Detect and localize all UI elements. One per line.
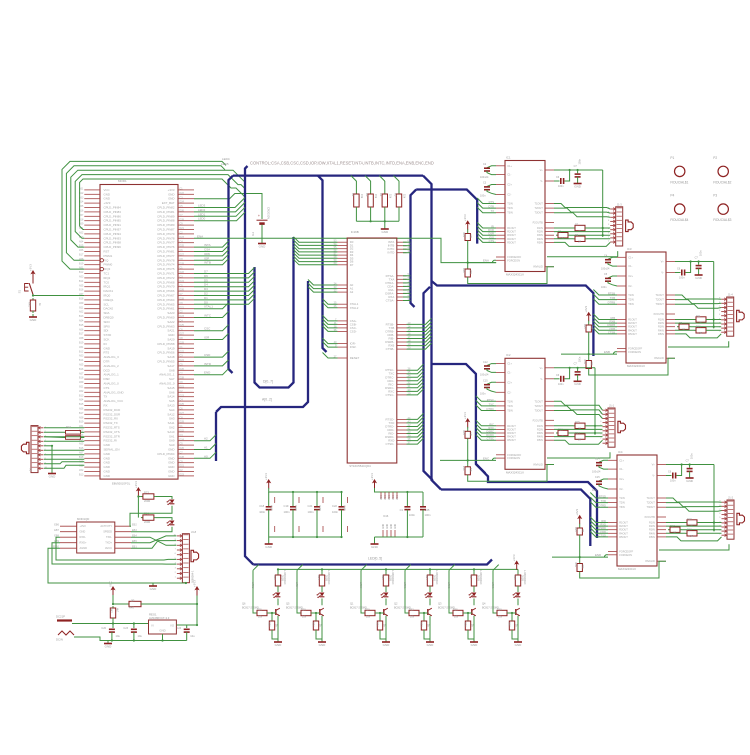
- svg-text:R3IN: R3IN: [537, 233, 543, 237]
- svg-text:CSD: CSD: [204, 353, 211, 357]
- wire IC1 V+ to connector: [602, 170, 604, 237]
- svg-text:Q3: Q3: [438, 602, 442, 606]
- svg-text:T3IN: T3IN: [619, 505, 625, 509]
- svg-text:SA8: SA8: [169, 368, 175, 372]
- svg-text:XTAL2: XTAL2: [350, 306, 359, 310]
- capacitor IC2 V+ filter: [577, 368, 579, 371]
- svg-text:A52: A52: [79, 311, 84, 314]
- svg-text:B17: B17: [79, 412, 84, 415]
- module MOD1QD pins: [60, 525, 77, 527]
- svg-text:GND: GND: [168, 470, 174, 474]
- svg-text:CPLD_PIN97: CPLD_PIN97: [104, 228, 122, 232]
- svg-text:100n: 100n: [700, 250, 703, 256]
- svg-text:A54: A54: [79, 399, 84, 402]
- svg-text:LED1: LED1: [403, 582, 407, 589]
- svg-text:R4IN: R4IN: [537, 237, 543, 241]
- svg-text:R26: R26: [268, 622, 271, 627]
- svg-text:IFI: IFI: [104, 342, 108, 346]
- svg-text:FIDUCIAL$4: FIDUCIAL$4: [670, 218, 688, 222]
- wires bus fan to IC4 R outputs: [590, 517, 608, 523]
- svg-text:CPLD_PIN86: CPLD_PIN86: [104, 214, 122, 218]
- transceiver IC4 MAX3243 body: [617, 455, 657, 566]
- svg-text:DSR: DSR: [104, 377, 110, 381]
- svg-text:C2-: C2-: [619, 487, 623, 491]
- svg-text:100n: 100n: [259, 510, 265, 514]
- uart left pin stubs: [338, 242, 348, 358]
- wire J2 ground: [44, 445, 52, 447]
- svg-text:D27: D27: [180, 254, 185, 257]
- wire LED to collector: [321, 599, 323, 606]
- svg-text:L-934SRD-D: L-934SRD-D: [391, 570, 394, 585]
- svg-text:R4IN: R4IN: [649, 531, 655, 535]
- resistor IC4 pullup: [579, 524, 581, 526]
- svg-text:INTD: INTD: [388, 251, 395, 255]
- svg-text:J1-2: J1-2: [728, 496, 734, 500]
- svg-text:R25: R25: [257, 608, 262, 611]
- svg-text:GND: GND: [168, 465, 174, 469]
- net labels IC1 inputs: [488, 200, 494, 243]
- connector J1-3: [616, 207, 623, 246]
- svg-text:CPLD_PIN98: CPLD_PIN98: [104, 241, 122, 245]
- svg-text:D21: D21: [180, 465, 185, 468]
- svg-text:LED5: LED5: [221, 162, 229, 166]
- svg-text:GND: GND: [168, 192, 174, 196]
- svg-text:CSA: CSA: [204, 248, 210, 252]
- svg-text:B16: B16: [79, 289, 84, 292]
- transceiver IC3 pins: [617, 257, 675, 358]
- transistor Q3 BC817: [471, 609, 473, 615]
- svg-text:Q4: Q4: [482, 602, 486, 606]
- svg-text:SA7: SA7: [169, 377, 175, 381]
- svg-text:IC4P: IC4P: [343, 505, 346, 511]
- svg-text:RST: RST: [104, 250, 110, 254]
- svg-text:IC4: IC4: [618, 450, 623, 454]
- svg-text:INVALID: INVALID: [533, 463, 543, 467]
- svg-text:LED4: LED4: [295, 582, 299, 589]
- svg-text:ENC: ENC: [483, 456, 489, 460]
- svg-text:CTSB: CTSB: [608, 330, 615, 334]
- power +3V3 IC1: [467, 222, 469, 230]
- bus to IC1: [416, 190, 477, 244]
- svg-text:DCD: DCD: [104, 368, 110, 372]
- svg-text:SPI0: SPI0: [104, 324, 111, 328]
- wires J2 to module: [44, 427, 84, 429]
- connector DCIN: [58, 631, 74, 635]
- svg-text:RS232_RX: RS232_RX: [104, 417, 119, 421]
- resistor R30 pulldown: [379, 612, 381, 614]
- battery G1 CR2032V: [257, 219, 268, 221]
- ground S1: [32, 314, 34, 317]
- svg-text:R5IN: R5IN: [537, 240, 543, 244]
- transceiver IC2 MAX3243 body: [505, 358, 545, 469]
- wire IC4 invalid loop: [580, 561, 666, 578]
- wires INTA CSA IOW IOP INTB to bus: [194, 241, 229, 247]
- capacitor IC4 charge pump V-: [666, 475, 672, 477]
- wire LED bus drop LED1: [405, 565, 411, 571]
- svg-text:RIB: RIB: [611, 316, 616, 320]
- svg-text:A57: A57: [79, 372, 84, 375]
- power +3V3 oscillator: [374, 481, 376, 489]
- power VCC arrow: [112, 588, 114, 596]
- svg-text:SA0: SA0: [169, 443, 175, 447]
- wire regulator out: [176, 604, 197, 625]
- svg-text:T2IN: T2IN: [628, 298, 634, 302]
- svg-text:CSD-: CSD-: [350, 329, 357, 333]
- svg-text:CPLD_PIN58: CPLD_PIN58: [157, 342, 175, 346]
- svg-text:GND: GND: [427, 643, 435, 647]
- svg-text:R2OUT: R2OUT: [619, 524, 628, 528]
- svg-text:A54: A54: [79, 320, 84, 323]
- svg-text:A52: A52: [79, 469, 84, 472]
- ic16 power stubs bottom: [382, 530, 384, 537]
- svg-text:FIQ: FIQ: [104, 258, 110, 262]
- wires XTAL1 INTC CSC IOR to bus: [194, 303, 229, 309]
- svg-text:CPLD_PIN91: CPLD_PIN91: [104, 223, 122, 227]
- svg-text:D1: D1: [204, 296, 208, 300]
- capacitor IC3 flying C2: [608, 276, 617, 278]
- svg-text:T3IN: T3IN: [507, 409, 513, 413]
- svg-text:VI: VI: [151, 624, 154, 628]
- module MOD1 left pins: [84, 190, 100, 476]
- svg-text:V+: V+: [540, 168, 544, 172]
- svg-text:IOW: IOW: [204, 252, 210, 256]
- wire decoupling top rail: [269, 488, 342, 492]
- svg-text:XTAL1: XTAL1: [204, 305, 213, 309]
- svg-text:R35: R35: [453, 608, 458, 611]
- capacitor IC2 flying C2: [487, 382, 496, 384]
- svg-text:0R: 0R: [590, 326, 593, 329]
- svg-text:DC21P: DC21P: [56, 615, 65, 619]
- wire IC4 connector bottom loop: [659, 544, 729, 550]
- svg-text:R42: R42: [110, 608, 113, 613]
- resistor R11: [694, 319, 696, 321]
- svg-text:CDB: CDB: [609, 327, 615, 331]
- svg-text:C2-: C2-: [628, 284, 632, 288]
- svg-text:C1-: C1-: [628, 264, 632, 268]
- svg-text:SA6: SA6: [169, 390, 175, 394]
- svg-text:A59: A59: [79, 381, 84, 384]
- svg-text:T1IN: T1IN: [628, 293, 634, 297]
- svg-text:R1OUT: R1OUT: [507, 226, 516, 230]
- power +3V3 S1: [32, 272, 34, 280]
- resistor R32 10k base: [407, 612, 409, 614]
- wires uart chD to bus: [407, 413, 424, 419]
- svg-text:0R: 0R: [690, 535, 693, 538]
- resistor IC1 pullup: [467, 229, 469, 231]
- diode LED LED4: [321, 588, 323, 592]
- svg-text:15k: 15k: [388, 194, 392, 199]
- svg-text:GND: GND: [80, 530, 86, 534]
- svg-text:R5IN: R5IN: [649, 535, 655, 539]
- svg-text:C12: C12: [483, 361, 488, 364]
- svg-text:P1: P1: [670, 156, 674, 160]
- capacitor IC1 charge pump V-: [554, 180, 560, 182]
- svg-text:CDD: CDD: [600, 530, 606, 534]
- svg-text:100n: 100n: [308, 510, 314, 514]
- bus LED horizontal: [253, 560, 492, 565]
- wire ethernet 3V3: [137, 497, 139, 518]
- svg-text:Q2: Q2: [394, 602, 398, 606]
- svg-text:ENA: ENA: [197, 234, 203, 238]
- svg-text:GND: GND: [104, 452, 110, 456]
- svg-text:DREQ0: DREQ0: [104, 316, 114, 320]
- svg-text:C24: C24: [176, 627, 181, 630]
- resistor R4 15k: [365, 176, 371, 182]
- wire emitter to gnd: [512, 616, 518, 639]
- svg-text:200R: 200R: [144, 499, 150, 503]
- svg-text:10u: 10u: [138, 634, 143, 638]
- svg-text:CTSB-: CTSB-: [386, 347, 395, 351]
- svg-text:INTB: INTB: [204, 261, 211, 265]
- svg-text:IC1: IC1: [506, 155, 511, 159]
- svg-text:FORCEON: FORCEON: [619, 553, 632, 557]
- svg-text:A52: A52: [79, 232, 84, 235]
- svg-text:R4OUT: R4OUT: [507, 237, 516, 241]
- svg-text:CPLD_PIN81: CPLD_PIN81: [157, 210, 175, 214]
- wire LED5 loop: [66, 166, 225, 260]
- svg-text:GND: GND: [30, 318, 38, 322]
- svg-text:SDO: SDO: [104, 320, 111, 324]
- svg-text:T1OUT: T1OUT: [646, 496, 655, 500]
- svg-text:AGND: AGND: [80, 546, 88, 550]
- svg-text:R36: R36: [464, 622, 467, 627]
- svg-text:D26: D26: [180, 210, 185, 213]
- ground IC1 charge pump: [577, 181, 579, 184]
- svg-text:C2+: C2+: [507, 183, 512, 187]
- svg-text:RXD: RXD: [600, 523, 606, 527]
- svg-text:+3V3: +3V3: [370, 473, 374, 480]
- svg-text:SPEED: SPEED: [103, 530, 112, 534]
- svg-text:CTSC-: CTSC-: [385, 393, 394, 397]
- svg-text:CONTROL:CSA,CSB,CSC,CSD,IOP,IO: CONTROL:CSA,CSB,CSC,CSD,IOP,IOW,XTAL1,RE…: [250, 161, 434, 166]
- svg-text:R5OUT: R5OUT: [619, 535, 628, 539]
- wire to 3V3 arrow: [143, 595, 197, 604]
- resistor R42: [112, 606, 114, 608]
- svg-text:15k: 15k: [360, 194, 364, 199]
- svg-text:P2OUTB: P2OUTB: [533, 221, 543, 225]
- svg-text:R3OUT: R3OUT: [619, 528, 628, 532]
- svg-text:DCIN: DCIN: [56, 638, 63, 642]
- wire IC1 connector bottom loop: [547, 251, 618, 257]
- svg-text:B13: B13: [79, 315, 84, 318]
- svg-text:R2IN: R2IN: [537, 427, 543, 431]
- svg-text:VCC: VCC: [381, 495, 383, 500]
- module MOD1 inverted pin circles: [100, 259, 103, 262]
- svg-text:R1OUT: R1OUT: [628, 318, 637, 322]
- resistor R34 200R: [429, 568, 431, 570]
- svg-text:RS232_DTR: RS232_DTR: [104, 434, 120, 438]
- svg-text:R31: R31: [381, 575, 384, 580]
- resistor R40 pulldown: [511, 612, 513, 614]
- svg-text:R18: R18: [687, 529, 692, 532]
- ground supply: [107, 641, 109, 644]
- svg-text:R16: R16: [462, 466, 465, 471]
- wire IC2 V+ rail: [554, 367, 595, 369]
- resistor R8: [556, 234, 558, 236]
- svg-text:Q5: Q5: [286, 602, 290, 606]
- svg-text:C1+: C1+: [507, 164, 512, 168]
- svg-text:P3: P3: [713, 194, 717, 198]
- connector J1-4 glyph: [737, 310, 745, 321]
- wire LED bus drop LED2: [449, 565, 455, 571]
- svg-text:GND: GND: [275, 643, 283, 647]
- svg-text:D4: D4: [204, 283, 208, 287]
- svg-text:C14: C14: [595, 458, 600, 461]
- capacitor C23 10u: [133, 622, 135, 624]
- svg-text:TXD: TXD: [601, 499, 606, 503]
- transceiver IC2 pins: [496, 364, 554, 465]
- svg-text:CTSC: CTSC: [487, 437, 494, 441]
- svg-text:0R: 0R: [578, 241, 581, 244]
- svg-text:100n24: 100n24: [480, 176, 489, 179]
- svg-text:100n: 100n: [601, 286, 607, 289]
- diode LED LED3: [517, 588, 519, 592]
- svg-text:DACK1: DACK1: [104, 289, 114, 293]
- svg-text:END: END: [204, 371, 211, 375]
- diode LED LED2: [473, 588, 475, 592]
- svg-text:CPLD_PIN81: CPLD_PIN81: [157, 250, 175, 254]
- svg-text:100n: 100n: [480, 392, 486, 395]
- svg-text:R2IN: R2IN: [658, 321, 664, 325]
- led speed: [156, 518, 172, 520]
- svg-text:GND: GND: [319, 643, 327, 647]
- svg-text:+3V3: +3V3: [575, 508, 579, 515]
- svg-text:+3V3: +3V3: [28, 264, 32, 271]
- svg-text:L-934SRD-D: L-934SRD-D: [479, 570, 482, 585]
- svg-text:R25: R25: [462, 233, 465, 238]
- svg-text:+3V3: +3V3: [463, 412, 467, 419]
- svg-text:J1-4: J1-4: [728, 293, 734, 297]
- svg-text:RXD-: RXD-: [80, 535, 86, 539]
- svg-text:R3OUT: R3OUT: [628, 325, 637, 329]
- svg-text:IC16: IC16: [383, 515, 389, 518]
- svg-text:D7: D7: [350, 263, 354, 267]
- svg-text:P2OUTB: P2OUTB: [533, 418, 543, 422]
- bus CONTROL left leg: [229, 176, 234, 373]
- svg-text:C2-: C2-: [507, 390, 511, 394]
- svg-text:B15: B15: [79, 403, 84, 406]
- svg-text:GND: GND: [104, 470, 110, 474]
- resistor R36 pulldown: [467, 612, 469, 614]
- svg-text:D0: D0: [204, 300, 208, 304]
- svg-text:+3V3: +3V3: [168, 188, 175, 192]
- connector DC21P: [57, 619, 72, 621]
- svg-text:SA3: SA3: [169, 417, 175, 421]
- svg-text:B15: B15: [79, 324, 84, 327]
- bus A address: [215, 412, 217, 461]
- capacitor C1 100n: [406, 492, 408, 506]
- wire IC3 enable junction: [588, 334, 590, 359]
- resistor R18: [685, 532, 687, 534]
- svg-text:FIDUCIAL$2: FIDUCIAL$2: [713, 180, 731, 184]
- wire LED to collector: [385, 599, 387, 606]
- wires uart chB to bus: [407, 318, 432, 324]
- svg-text:T2OUT: T2OUT: [646, 501, 655, 505]
- svg-text:V-: V-: [652, 474, 655, 478]
- svg-text:J3-8: J3-8: [191, 530, 197, 534]
- svg-text:B14: B14: [79, 359, 84, 362]
- svg-text:CPLD_PIN77: CPLD_PIN77: [157, 241, 175, 245]
- svg-text:B17: B17: [79, 254, 84, 257]
- svg-text:PWM0: PWM0: [104, 263, 113, 267]
- svg-text:R30: R30: [312, 622, 315, 627]
- transistor Q4 BC817: [515, 609, 517, 615]
- wire emitter to gnd: [272, 616, 278, 639]
- svg-text:+3V3: +3V3: [512, 554, 516, 561]
- transceiver IC1 pins: [496, 166, 554, 267]
- resistor R13: [556, 432, 558, 434]
- svg-text:CPLD_PIN55: CPLD_PIN55: [157, 360, 175, 364]
- svg-text:T1OUT: T1OUT: [655, 293, 664, 297]
- power +3V3 IC4: [579, 517, 581, 525]
- svg-text:IRQ3: IRQ3: [104, 267, 111, 271]
- svg-text:B11: B11: [79, 306, 84, 309]
- connector J1-2 glyph: [737, 513, 745, 524]
- resistor R7: [573, 227, 575, 229]
- svg-text:VCC: VCC: [108, 581, 112, 587]
- resistor R29 10k base: [363, 612, 365, 614]
- svg-text:RIC: RIC: [489, 422, 494, 426]
- svg-text:DSRC: DSRC: [486, 430, 494, 434]
- svg-text:SA22: SA22: [167, 320, 174, 324]
- wire LED to collector: [429, 599, 431, 606]
- svg-text:INTA: INTA: [204, 243, 211, 247]
- svg-text:+: +: [258, 214, 260, 218]
- svg-text:100n: 100n: [425, 513, 431, 517]
- svg-text:IRQ0: IRQ0: [104, 294, 111, 298]
- wire IC1 invalid loop: [468, 267, 554, 284]
- resistor IC2 pulldown: [467, 465, 469, 467]
- capacitor C20 10u: [112, 624, 114, 629]
- svg-text:TXD+: TXD+: [105, 541, 112, 545]
- wire LED to collector: [277, 599, 279, 606]
- svg-text:CPLD_PIN89: CPLD_PIN89: [157, 214, 175, 218]
- capacitor IC1 flying C2: [487, 185, 496, 187]
- svg-text:CTS: CTS: [104, 386, 110, 390]
- wire gnd rail supply: [108, 640, 187, 642]
- svg-text:C2-: C2-: [507, 193, 511, 197]
- svg-text:A58: A58: [79, 337, 84, 340]
- svg-text:R2IN: R2IN: [537, 230, 543, 234]
- svg-text:B11: B11: [79, 386, 84, 389]
- resistor R35 10k base: [451, 612, 453, 614]
- svg-text:ANALOG_0: ANALOG_0: [104, 382, 120, 386]
- svg-text:D24: D24: [180, 201, 185, 204]
- svg-text:RS232_RTS: RS232_RTS: [104, 426, 120, 430]
- svg-text:D29: D29: [180, 342, 185, 345]
- svg-text:10u: 10u: [116, 634, 121, 638]
- svg-text:A51: A51: [79, 346, 84, 349]
- svg-text:R40: R40: [508, 622, 511, 627]
- svg-text:INTC: INTC: [204, 314, 212, 318]
- svg-text:100n: 100n: [579, 158, 582, 164]
- svg-text:J1-1: J1-1: [609, 404, 615, 408]
- svg-text:R3OUT: R3OUT: [507, 431, 516, 435]
- svg-text:P2: P2: [713, 156, 717, 160]
- svg-text:J2: J2: [29, 468, 32, 472]
- svg-text:ANALOG_0: ANALOG_0: [159, 382, 175, 386]
- resistor R31 200R: [385, 568, 387, 570]
- wire IC1 enable junction: [467, 243, 469, 268]
- bus to IC3: [432, 281, 594, 356]
- svg-text:L-934SRD-D: L-934SRD-D: [523, 570, 526, 585]
- svg-text:E86/5001GFGL: E86/5001GFGL: [112, 482, 131, 486]
- module MOD1 right pins: [178, 190, 194, 476]
- transistor Q1 BC817: [383, 609, 385, 615]
- svg-text:INTD: INTD: [204, 362, 212, 366]
- svg-text:R33: R33: [420, 622, 423, 627]
- svg-text:IC16B: IC16B: [351, 230, 359, 234]
